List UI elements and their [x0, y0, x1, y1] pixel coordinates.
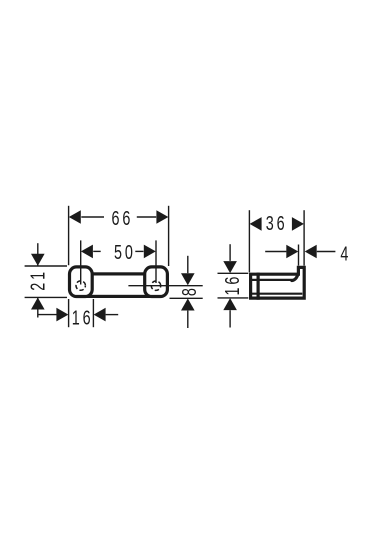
svg-text:21: 21 [26, 269, 49, 291]
svg-text:66: 66 [112, 206, 134, 229]
svg-text:16: 16 [72, 306, 94, 329]
svg-text:8: 8 [178, 285, 201, 296]
svg-text:36: 36 [266, 212, 288, 235]
svg-text:16: 16 [221, 274, 244, 296]
svg-text:4: 4 [340, 242, 351, 265]
svg-text:50: 50 [114, 241, 136, 264]
